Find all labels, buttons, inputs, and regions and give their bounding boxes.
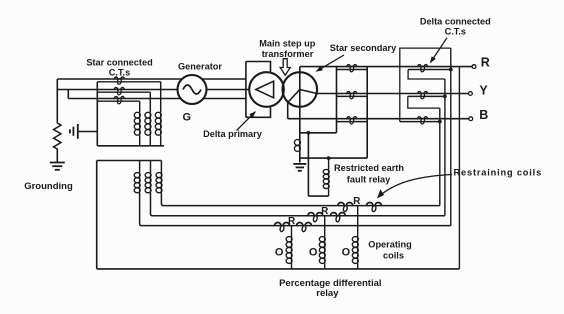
CT star secondary phase B <box>347 117 357 125</box>
wire neutral tap <box>300 132 337 134</box>
svg-text:Delta primary: Delta primary <box>203 129 263 139</box>
wire phase Y to delta circle <box>207 89 250 91</box>
wire operating coil 2 to bus <box>324 264 326 269</box>
wire Y-CT secondary leads <box>408 95 445 97</box>
coil operating 3 <box>286 237 292 264</box>
restraining coil line2 left <box>308 213 323 223</box>
generator sine wave <box>183 85 201 94</box>
wire B-CT secondary leads <box>400 121 440 123</box>
wire CT box bottom (residual) <box>300 157 367 159</box>
wire operating coil 1 to bus <box>357 264 359 269</box>
transformer star secondary circle <box>283 72 318 107</box>
wire CT-R secondary lead <box>97 81 160 83</box>
wire phase B to delta bracket <box>203 98 246 100</box>
CT star secondary phase Y <box>347 92 357 100</box>
wire operating coil 3 to bus <box>291 264 293 269</box>
terminal B <box>469 117 473 121</box>
wire pilot 2 to relay <box>444 79 446 216</box>
svg-text:C.T.s: C.T.s <box>109 68 130 78</box>
wire star point riser <box>67 90 69 99</box>
svg-text:C.T.s: C.T.s <box>445 27 466 37</box>
arrow Delta primary pointer <box>237 112 256 131</box>
junction delta R <box>449 68 453 72</box>
wire operating coil drop 3 <box>291 226 293 237</box>
wire pilot 1 to relay <box>439 108 441 206</box>
wire HV line B <box>288 118 469 120</box>
svg-text:Y: Y <box>479 84 488 98</box>
wire CT ground link <box>78 131 98 133</box>
wire lead drop to coil 2 <box>149 92 151 112</box>
wire phase B generator left <box>68 98 181 100</box>
CT generator phase B (star connected) <box>114 97 124 105</box>
restraining coil line3 left <box>275 223 290 233</box>
wire CT common bus bottom <box>97 145 164 147</box>
wire pilot 3 to relay <box>450 48 452 226</box>
wire REF coil top stub <box>328 158 330 169</box>
wire phase Y generator left <box>57 89 178 91</box>
wire pilot coil 2 to relay line 2 <box>151 193 445 216</box>
wire CT B secondary leads <box>337 121 368 123</box>
transformer delta primary circle <box>249 72 284 107</box>
terminal Y <box>469 92 473 96</box>
svg-text:O: O <box>309 246 318 258</box>
wire operating coil drop 2 <box>324 216 326 237</box>
wire HV line Y <box>317 93 469 95</box>
ground symbol transformer neutral <box>293 164 306 171</box>
svg-text:R: R <box>353 196 361 207</box>
coil pilot 1 <box>134 173 140 193</box>
wire lower box left edge <box>96 161 98 269</box>
ground symbol below resistor <box>50 163 65 170</box>
svg-text:B: B <box>479 108 488 122</box>
wire delta link Y to B <box>408 96 440 108</box>
svg-text:Restraining coils: Restraining coils <box>454 168 542 178</box>
arrow Star secondary pointer <box>317 55 345 71</box>
svg-text:R: R <box>288 216 296 227</box>
svg-text:Operating: Operating <box>368 240 411 250</box>
restraining coil line1 left <box>338 203 353 213</box>
wire bottom return bus <box>97 268 460 270</box>
wire REF relay bottom <box>308 195 328 197</box>
wire star arm drop to B <box>287 103 289 119</box>
svg-text:relay: relay <box>316 288 339 299</box>
wire star point to resistor <box>56 79 58 122</box>
svg-text:transformer: transformer <box>262 49 314 59</box>
coil restricted earth fault relay <box>323 169 329 188</box>
junction REF coil to residual bus <box>327 156 331 160</box>
svg-text:Grounding: Grounding <box>24 181 73 192</box>
wire CT bus left <box>96 82 98 146</box>
CT star secondary phase R <box>347 65 357 73</box>
svg-text:O: O <box>342 246 351 258</box>
arrow Restraining coils pointer <box>378 175 453 198</box>
block arrow to transformer <box>280 59 290 75</box>
generator G circle <box>178 75 207 104</box>
wire CT-Y secondary lead <box>97 91 150 93</box>
restraining coil line3 right <box>297 223 312 233</box>
svg-text:R: R <box>481 56 490 70</box>
wire drop to pilot coil 1 <box>139 161 141 173</box>
svg-text:fault relay: fault relay <box>347 174 391 184</box>
svg-text:coils: coils <box>383 251 404 261</box>
wire return pilot from R line <box>458 67 460 269</box>
junction delta Y <box>443 95 447 99</box>
coil operating 1 <box>352 237 358 264</box>
wire coil2 to common <box>149 135 151 146</box>
wire drop to pilot coil 2 <box>150 161 152 173</box>
wire delta bracket top <box>246 62 271 74</box>
terminal R <box>472 65 476 69</box>
wire CT R secondary leads <box>337 69 368 71</box>
symbol delta winding triangle <box>256 81 274 98</box>
coil operating 2 <box>319 237 325 264</box>
svg-text:R: R <box>321 206 329 217</box>
svg-text:Star connected: Star connected <box>86 58 152 68</box>
wire delta link R to Y <box>408 70 445 80</box>
junction delta B <box>438 120 442 124</box>
arrow Delta connected CTs pointer <box>431 38 448 63</box>
CT generator phase Y (star connected) <box>114 88 124 96</box>
wire delta bracket vertical <box>245 62 247 118</box>
wire phase R to delta bracket <box>202 78 246 80</box>
wire coil3 to common <box>160 135 162 146</box>
wire CT-B secondary lead <box>97 100 139 102</box>
wire R-CT secondary leads <box>408 69 451 71</box>
wire phase R generator left <box>57 78 182 80</box>
coil neutral CT <box>294 139 300 151</box>
wire CT box left edge <box>336 67 338 133</box>
CT delta connected phase Y <box>418 92 428 100</box>
coil CT secondary 2 <box>145 112 151 135</box>
CT delta connected phase R <box>418 65 428 73</box>
wire delta bracket bottom <box>246 106 271 118</box>
junction neutral tap <box>307 131 311 135</box>
wire pilot coil 3 to relay line 1 <box>161 193 439 206</box>
wire drop to pilot coil 3 <box>160 161 162 173</box>
wire coil1 to common <box>139 135 141 146</box>
svg-text:O: O <box>275 246 284 258</box>
restraining coil line1 right <box>367 203 382 213</box>
svg-text:Main step up: Main step up <box>259 39 316 49</box>
ground symbol CT secondary (sideways) <box>70 124 78 139</box>
restraining coil line2 right <box>330 213 345 223</box>
svg-text:G: G <box>183 111 192 123</box>
coil pilot 3 <box>156 173 162 193</box>
wire CT Y secondary leads <box>337 95 368 97</box>
wire star top stub <box>299 67 301 73</box>
svg-text:Delta connected: Delta connected <box>420 16 491 26</box>
wire lead drop to coil 3 <box>160 82 162 112</box>
wire lead drop to coil 1 <box>139 101 141 112</box>
wire lower box top <box>97 160 162 162</box>
svg-text:Restricted earth: Restricted earth <box>334 163 404 173</box>
CT delta connected phase B <box>418 117 428 125</box>
svg-text:Star secondary: Star secondary <box>330 43 397 53</box>
wire pilot coil 1 to relay line 3 <box>140 193 451 226</box>
resistor grounding (generator neutral earthing) <box>54 122 61 151</box>
wire REF relay left <box>307 133 309 196</box>
wire delta link B to R (top loop) <box>400 48 451 122</box>
wire HV line R <box>300 66 472 68</box>
wire transformer neutral <box>299 90 301 163</box>
wire CT box right edge <box>366 67 368 159</box>
coil CT secondary 3 <box>155 112 161 135</box>
coil CT secondary 1 <box>134 112 140 135</box>
wire resistor to ground <box>56 151 58 163</box>
CT generator phase R (star connected) <box>114 77 124 85</box>
svg-text:Generator: Generator <box>178 61 222 71</box>
wire operating coil drop 1 <box>357 206 359 237</box>
coil pilot 2 <box>145 173 151 193</box>
symbol star winding Y <box>288 72 317 102</box>
wire REF coil bottom stub <box>328 189 330 196</box>
